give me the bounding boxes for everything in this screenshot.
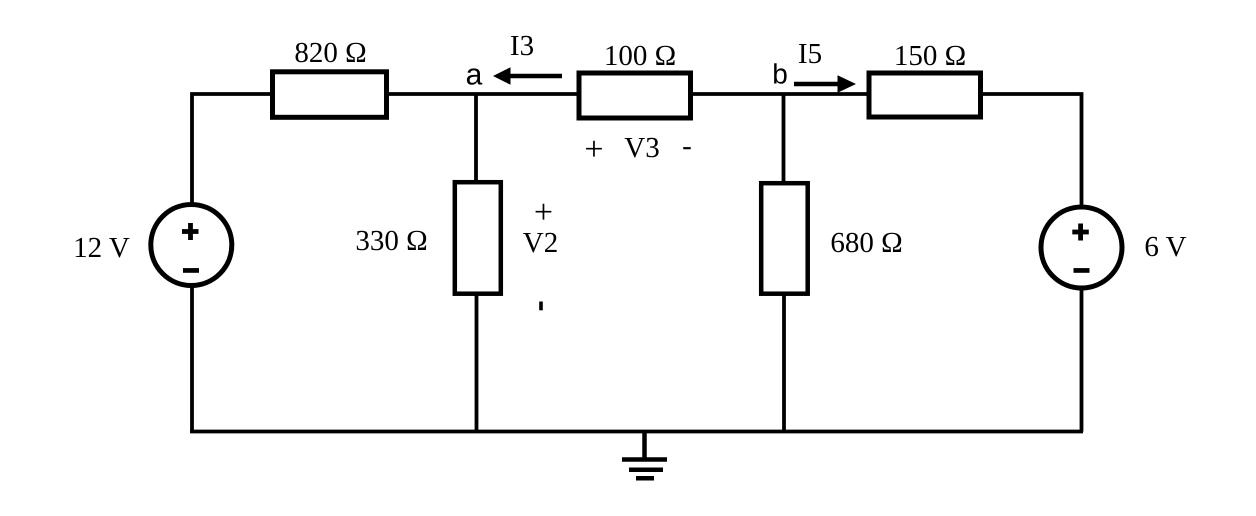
resistor 100 ohm xyxy=(579,73,691,118)
svg-text:680 Ω: 680 Ω xyxy=(830,227,902,259)
svg-text:+: + xyxy=(584,131,603,168)
resistor 150 ohm xyxy=(869,73,981,117)
wire top rail a segment xyxy=(386,92,579,96)
resistor 680 ohm xyxy=(761,183,808,294)
current arrow I3 xyxy=(493,67,562,84)
svg-text:100 Ω: 100 Ω xyxy=(604,40,676,72)
wire top rail b segment xyxy=(690,92,869,96)
svg-text:330 Ω: 330 Ω xyxy=(355,225,427,257)
wire node b drop xyxy=(782,94,786,183)
resistor 820 ohm xyxy=(273,72,387,118)
wire right lower segment xyxy=(1080,288,1084,432)
label + V3 - xyxy=(584,130,691,168)
svg-text:V3: V3 xyxy=(624,132,659,164)
ground xyxy=(622,432,667,479)
svg-text:150 Ω: 150 Ω xyxy=(894,40,966,72)
voltage source 12 V xyxy=(151,205,232,286)
svg-text:I3: I3 xyxy=(510,30,534,62)
voltage source 6 V xyxy=(1041,207,1122,288)
svg-text:820 Ω: 820 Ω xyxy=(294,37,366,69)
wire bottom rail xyxy=(190,430,1083,434)
svg-text:I5: I5 xyxy=(798,38,822,70)
wire node a drop xyxy=(474,94,478,182)
svg-text:+: + xyxy=(534,194,553,231)
wire below 680 ohm resistor xyxy=(782,294,786,432)
svg-text:a: a xyxy=(466,59,483,92)
svg-text:b: b xyxy=(772,59,788,90)
label minus tick below V2 xyxy=(539,302,543,311)
current arrow I5 xyxy=(794,75,856,93)
svg-text:12 V: 12 V xyxy=(73,232,130,264)
label + V2 xyxy=(523,194,558,259)
wire top-left segment xyxy=(192,94,270,203)
wire below 330 ohm resistor xyxy=(475,294,479,432)
svg-text:V2: V2 xyxy=(523,227,558,259)
resistor 330 ohm xyxy=(455,182,501,294)
wire left lower segment xyxy=(190,287,194,432)
wire top-right segment xyxy=(980,94,1082,207)
svg-text:-: - xyxy=(682,130,692,162)
svg-text:6 V: 6 V xyxy=(1144,231,1186,263)
